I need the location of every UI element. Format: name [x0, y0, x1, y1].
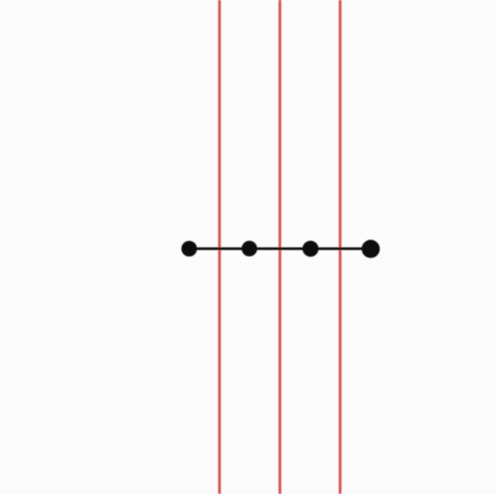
- red vertical line 3 (midline between node C and node D): [339, 0, 342, 494]
- node C (point 3): [303, 241, 319, 257]
- red vertical line 2 (midline between node B and node C): [278, 0, 281, 494]
- node D (point 4): [362, 240, 380, 258]
- red vertical line 1 (midline between node A and node B): [218, 0, 221, 494]
- wire: horizontal black segment: [189, 247, 371, 250]
- node A (point 1): [181, 241, 197, 257]
- node B (point 2): [242, 241, 258, 257]
